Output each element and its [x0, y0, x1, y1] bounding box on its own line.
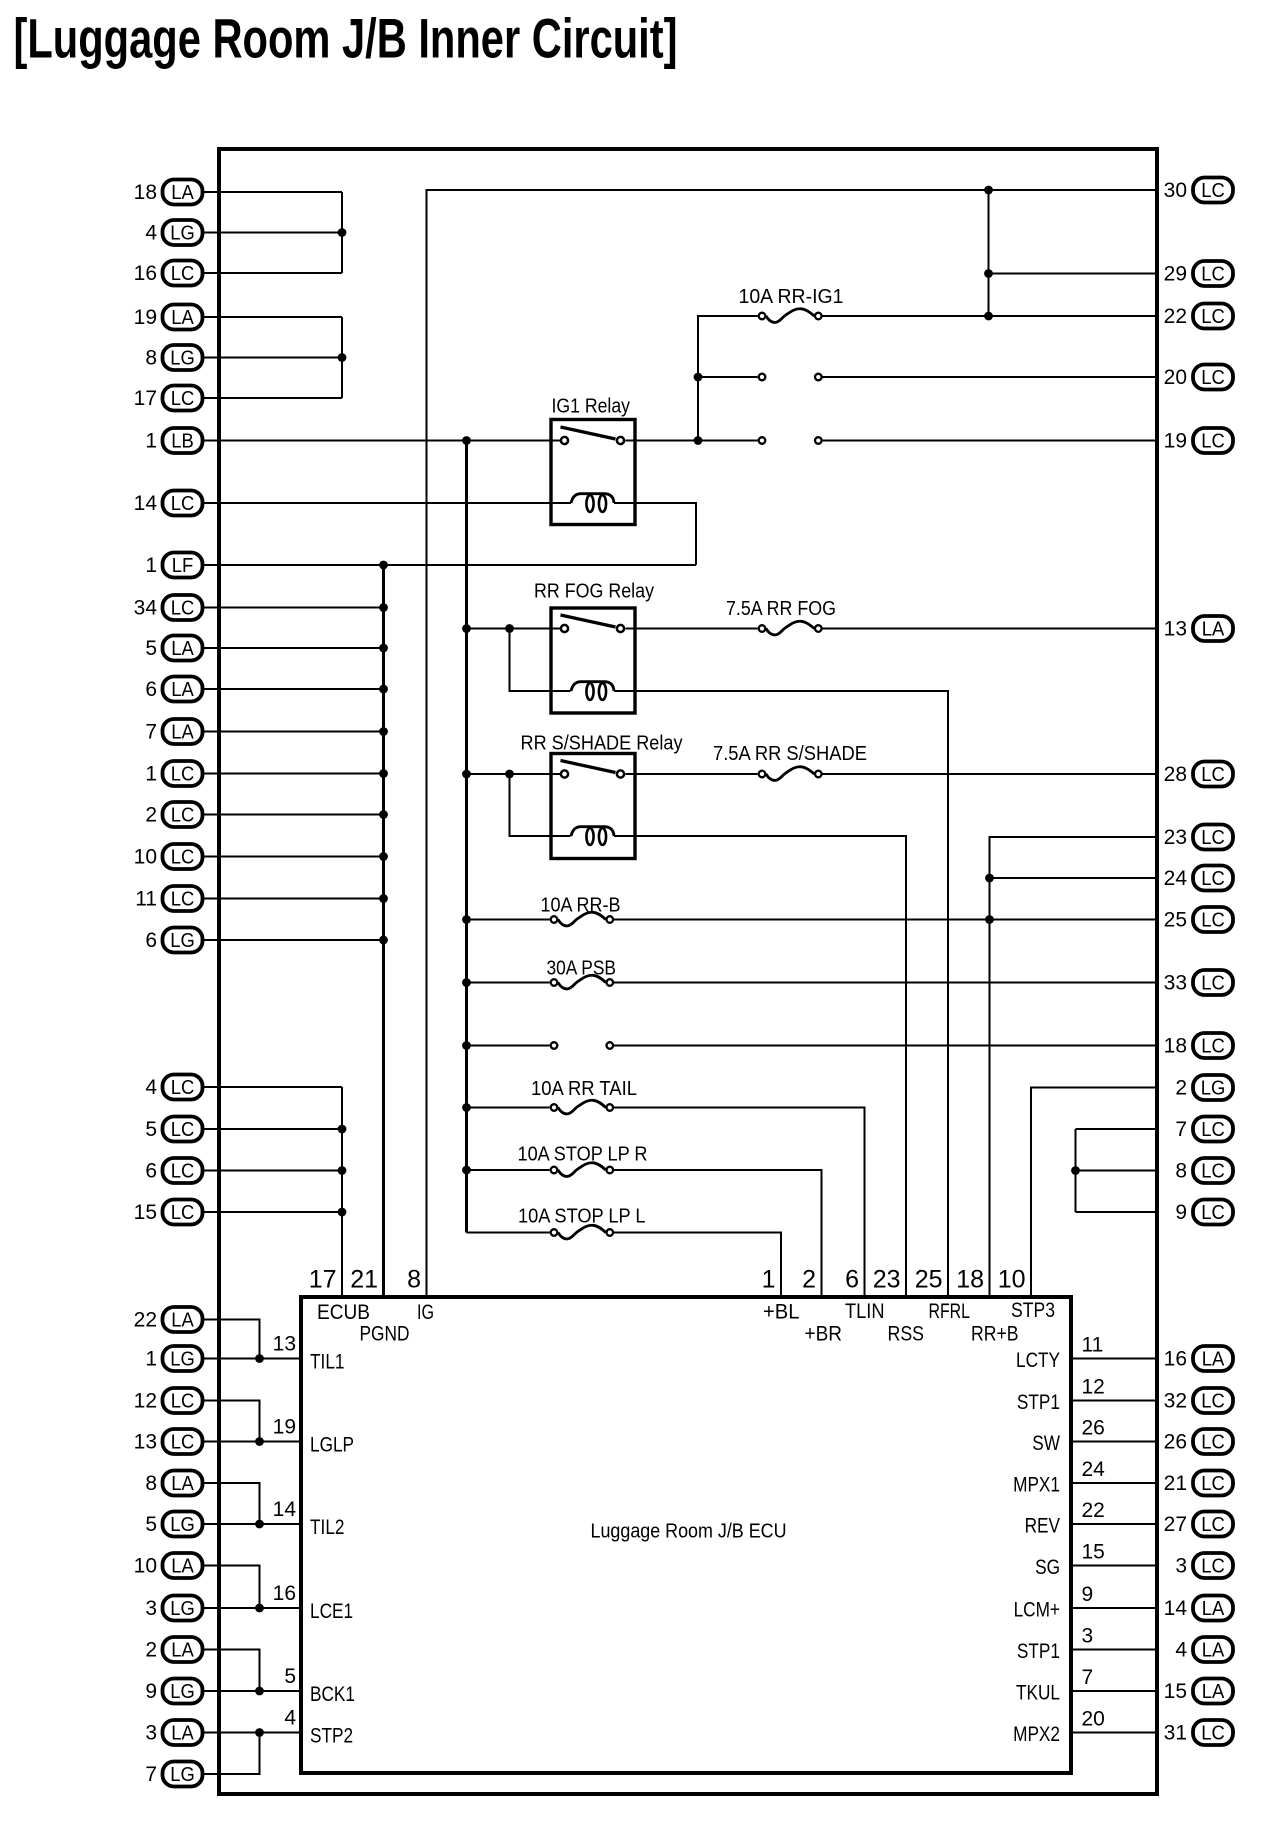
connector pin 18 LA (left) [134, 180, 203, 205]
wire 10 LC to PGND bus [204, 855, 384, 857]
wire ECU pin 7 to 15 LA [1069, 1690, 1157, 1692]
svg-text:11: 11 [1082, 1334, 1104, 1357]
wire ECU pin 20 to 31 LC [1069, 1731, 1157, 1733]
connector pin 25 LC (right) [1164, 907, 1233, 932]
wire 2 LA elbow [204, 1650, 260, 1692]
svg-text:15: 15 [134, 1201, 157, 1224]
svg-text:25: 25 [1164, 909, 1187, 932]
wire to 24 LC [990, 877, 1158, 879]
svg-text:7.5A RR S/SHADE: 7.5A RR S/SHADE [713, 743, 867, 765]
svg-text:16: 16 [1164, 1348, 1187, 1371]
connector pin 28 LC (right) [1164, 762, 1233, 787]
connector pin 22 LC (right) [1164, 304, 1233, 329]
wire 14 LC to IG1 coil [204, 502, 571, 504]
svg-text:LA: LA [1202, 1640, 1225, 1662]
wire RR S/SHADE coil to RSS [614, 836, 906, 1298]
wire tie 7-8-9 LC [1074, 1129, 1076, 1212]
connector pin 3 LC (right) [1175, 1553, 1233, 1578]
fuse 10A RR-B [551, 916, 558, 923]
junction PGND bus y=898.5 [379, 894, 388, 903]
svg-text:30A PSB: 30A PSB [547, 958, 617, 980]
svg-text:LG: LG [1201, 1078, 1226, 1100]
svg-text:1: 1 [145, 554, 157, 577]
svg-text:RR S/SHADE Relay: RR S/SHADE Relay [521, 733, 683, 755]
svg-text:LC: LC [171, 889, 195, 911]
connector pin 5 LA (left) [145, 636, 202, 661]
wire tie 19LA-8LG-17LC [341, 317, 343, 398]
connector pin 2 LC (left) [145, 802, 202, 827]
svg-text:LA: LA [171, 679, 194, 701]
wire IG1 relay output [625, 439, 757, 441]
svg-text:RR+B: RR+B [971, 1323, 1019, 1346]
wire RR-B feed [467, 918, 550, 920]
wire fuse RR-IG1 to 22 LC [823, 315, 1158, 317]
svg-text:LC: LC [171, 1432, 195, 1454]
svg-text:LC: LC [171, 1161, 195, 1183]
relay RR S/SHADE coil [571, 827, 614, 836]
svg-text:4: 4 [145, 1076, 157, 1099]
junction PGND bus y=940 [379, 936, 388, 945]
svg-text:15: 15 [1164, 1680, 1187, 1703]
svg-text:LA: LA [171, 307, 194, 329]
svg-text:10A RR TAIL: 10A RR TAIL [531, 1078, 637, 1100]
junction ECUB bus y=1212 [338, 1208, 347, 1217]
junction IG1 output at x=698 [694, 436, 703, 445]
svg-text:15: 15 [1082, 1541, 1105, 1564]
svg-text:2: 2 [145, 1639, 157, 1662]
connector pin 19 LA (left) [134, 305, 203, 330]
svg-text:LG: LG [170, 1681, 195, 1703]
connector pin 23 LC (right) [1164, 825, 1233, 850]
connector pin 14 LC (left) [134, 491, 203, 516]
connector pin 13 LA (right) [1164, 616, 1233, 641]
wire ECU pin 9 to 14 LA [1069, 1607, 1157, 1609]
wire STOP LP R feed [467, 1169, 550, 1171]
connector pin 29 LC (right) [1164, 261, 1233, 286]
svg-text:PGND: PGND [360, 1323, 410, 1346]
svg-text:6: 6 [145, 929, 157, 952]
connector pin 5 LG (left) [145, 1512, 202, 1537]
svg-text:LA: LA [171, 722, 194, 744]
connector pin 5 LC (left) [145, 1117, 202, 1142]
svg-text:4: 4 [145, 222, 157, 245]
svg-text:10A RR-B: 10A RR-B [541, 895, 621, 917]
svg-text:14: 14 [273, 1498, 297, 1521]
junction feed at 20 LC row [694, 373, 703, 382]
wire 7 LC [1076, 1128, 1158, 1130]
svg-text:17: 17 [309, 1266, 337, 1294]
svg-text:22: 22 [1082, 1499, 1105, 1522]
svg-text:LA: LA [171, 638, 194, 660]
wire to 28 LC [823, 773, 1158, 775]
wire PSB to 33 LC [614, 981, 1157, 983]
svg-text:SG: SG [1035, 1556, 1060, 1579]
connector pin 8 LG (left) [145, 345, 202, 370]
wire 10 LA elbow [204, 1566, 260, 1609]
svg-text:LC: LC [1201, 264, 1225, 286]
svg-text:4: 4 [1175, 1639, 1187, 1662]
svg-text:LC: LC [171, 805, 195, 827]
svg-text:RR FOG Relay: RR FOG Relay [534, 581, 654, 603]
junction +B RR TAIL [462, 1103, 471, 1112]
svg-text:9: 9 [1175, 1201, 1187, 1224]
svg-text:28: 28 [1164, 763, 1187, 786]
svg-text:LC: LC [171, 847, 195, 869]
connector pin 13 LC (left) [134, 1429, 203, 1454]
wire 12 LC elbow [204, 1401, 260, 1442]
svg-text:Luggage Room J/B ECU: Luggage Room J/B ECU [591, 1521, 787, 1543]
svg-text:LC: LC [171, 1202, 195, 1224]
svg-text:4: 4 [284, 1707, 296, 1730]
wire 1 LF / IG1 coil return [204, 564, 696, 566]
svg-text:10A STOP LP R: 10A STOP LP R [518, 1144, 648, 1166]
svg-text:LA: LA [171, 1310, 194, 1332]
junction at 3 LG [255, 1604, 264, 1613]
svg-text:RFRL: RFRL [929, 1300, 971, 1323]
connector pin 31 LC (right) [1164, 1720, 1233, 1745]
wire RR FOG coil feed [510, 629, 571, 692]
connector pin 2 LG (right) [1175, 1075, 1233, 1100]
wire +B to RR S/SHADE relay [467, 773, 561, 775]
svg-text:MPX2: MPX2 [1013, 1723, 1060, 1746]
wire ECU pin 26 to 26 LC [1069, 1440, 1157, 1442]
wire 23 LC to RR+B [990, 837, 1158, 1298]
relay RR FOG box [551, 608, 635, 713]
wire 1 LC to PGND bus [204, 772, 384, 774]
luggage room J/B boundary box [219, 149, 1157, 1794]
relay RR S/SHADE switch contacts [561, 770, 568, 777]
svg-text:STP1: STP1 [1017, 1391, 1060, 1414]
svg-text:2: 2 [1175, 1077, 1187, 1100]
svg-text:31: 31 [1164, 1722, 1187, 1745]
connector pin 10 LA (left) [134, 1553, 203, 1578]
connector pin 17 LC (left) [134, 386, 203, 411]
wire RR S/SHADE coil feed [510, 774, 571, 836]
svg-text:TLIN: TLIN [845, 1300, 885, 1323]
wire 5 LA to PGND bus [204, 647, 384, 649]
wire 4 LG [204, 231, 342, 233]
svg-text:LB: LB [171, 431, 194, 453]
svg-text:7.5A RR FOG: 7.5A RR FOG [726, 598, 836, 620]
wire 7 LG elbow [204, 1733, 260, 1775]
svg-text:1: 1 [145, 1348, 157, 1371]
svg-text:21: 21 [350, 1266, 378, 1294]
junction ECUB bus y=1170.5 [338, 1166, 347, 1175]
svg-text:LC: LC [1201, 367, 1225, 389]
svg-text:21: 21 [1164, 1472, 1187, 1495]
connector pin 14 LA (right) [1164, 1596, 1233, 1621]
connector pin 16 LA (right) [1164, 1346, 1233, 1371]
wire 5 LC [204, 1128, 342, 1130]
wire 8 LA elbow [204, 1483, 260, 1524]
svg-text:10A STOP LP L: 10A STOP LP L [518, 1206, 646, 1228]
svg-text:LA: LA [1202, 1681, 1225, 1703]
wire RR FOG relay output [625, 627, 757, 629]
junction PGND bus y=648 [379, 644, 388, 653]
svg-text:6: 6 [145, 1160, 157, 1183]
wire 6 LC [204, 1169, 342, 1171]
svg-text:LC: LC [171, 388, 195, 410]
junction PGND bus y=856.5 [379, 852, 388, 861]
wire 8 LG [204, 356, 342, 358]
connector pin 22 LA (left) [134, 1307, 203, 1332]
svg-text:LC: LC [1201, 1119, 1225, 1141]
svg-text:LA: LA [171, 182, 194, 204]
svg-text:12: 12 [134, 1390, 157, 1413]
svg-text:16: 16 [273, 1582, 296, 1605]
junction at 1 LG [255, 1354, 264, 1363]
wire PGND bus [382, 565, 385, 1298]
connector pin 30 LC (right) [1164, 178, 1233, 203]
svg-text:LC: LC [1201, 1723, 1225, 1745]
svg-text:19: 19 [134, 306, 157, 329]
terminal pair 20 LC row [759, 374, 766, 381]
svg-text:IG: IG [417, 1301, 434, 1324]
wire 13 LC to ECU [204, 1440, 303, 1442]
svg-text:LCM+: LCM+ [1014, 1599, 1060, 1622]
connector pin 1 LF (left) [145, 553, 202, 578]
relay IG1 switch contacts [561, 437, 568, 444]
wire tie 18LA-4LG-16LC [341, 192, 343, 273]
wire fuse RR-IG1 feed [698, 316, 758, 441]
connector pin 26 LC (right) [1164, 1429, 1233, 1454]
svg-text:LC: LC [1201, 973, 1225, 995]
connector pin 1 LG (left) [145, 1346, 202, 1371]
connector pin 20 LC (right) [1164, 365, 1233, 390]
svg-text:23: 23 [873, 1266, 901, 1294]
wire IG1 coil to 1 LF [614, 503, 696, 565]
connector pin 2 LA (left) [145, 1637, 202, 1662]
svg-text:LC: LC [1201, 764, 1225, 786]
svg-text:2: 2 [802, 1266, 816, 1294]
connector pin 24 LC (right) [1164, 866, 1233, 891]
svg-text:5: 5 [145, 1118, 157, 1141]
svg-text:3: 3 [1082, 1625, 1094, 1648]
connector pin 8 LA (left) [145, 1471, 202, 1496]
svg-text:34: 34 [134, 597, 158, 620]
svg-text:3: 3 [145, 1722, 157, 1745]
svg-text:17: 17 [134, 387, 157, 410]
svg-text:20: 20 [1082, 1708, 1105, 1731]
svg-text:LG: LG [170, 1349, 195, 1371]
svg-text:5: 5 [284, 1665, 296, 1688]
svg-text:14: 14 [1164, 1597, 1188, 1620]
svg-text:9: 9 [1082, 1583, 1094, 1606]
svg-text:10A RR-IG1: 10A RR-IG1 [739, 286, 844, 308]
junction IG line at x=988 [984, 186, 993, 195]
svg-text:LGLP: LGLP [310, 1434, 354, 1457]
svg-text:LG: LG [170, 1598, 195, 1620]
svg-text:LC: LC [171, 1391, 195, 1413]
wire 15 LC [204, 1211, 342, 1213]
svg-text:LC: LC [1201, 910, 1225, 932]
svg-text:LC: LC [1201, 827, 1225, 849]
svg-text:LC: LC [1201, 868, 1225, 890]
connector pin 3 LG (left) [145, 1596, 202, 1621]
svg-text:LG: LG [170, 348, 195, 370]
connector pin 33 LC (right) [1164, 970, 1233, 995]
wire 4 LC [204, 1086, 342, 1088]
junction +B PSB [462, 978, 471, 987]
wire 2 LC to PGND bus [204, 813, 384, 815]
svg-text:14: 14 [134, 492, 158, 515]
svg-text:22: 22 [1164, 305, 1187, 328]
junction at 4 LG [338, 228, 347, 237]
wire 3 LA to ECU [204, 1731, 303, 1733]
svg-text:18: 18 [956, 1266, 984, 1294]
wire 6 LG to PGND bus [204, 939, 384, 941]
wire STOP LP L feed [467, 1231, 550, 1233]
connector pin 1 LB (left) [145, 428, 202, 453]
connector pin 12 LC (left) [134, 1388, 203, 1413]
svg-text:LG: LG [170, 1514, 195, 1536]
svg-text:LC: LC [1201, 1036, 1225, 1058]
ECU Luggage Room J/B ECU box [301, 1297, 1071, 1773]
svg-text:LCTY: LCTY [1016, 1349, 1060, 1372]
junction at 13 LC [255, 1437, 264, 1446]
wire 16 LC [204, 272, 342, 274]
wire ECU pin 12 to 32 LC [1069, 1399, 1157, 1401]
svg-text:MPX1: MPX1 [1013, 1474, 1060, 1497]
junction PGND bus y=607.5 [379, 603, 388, 612]
svg-text:10: 10 [134, 846, 157, 869]
junction RR S/SHADE coil feed [505, 770, 514, 779]
fuse 10A RR TAIL [551, 1104, 558, 1111]
wire STOP LP R to +BR [614, 1170, 822, 1298]
wire to 20 LC [823, 376, 1158, 378]
svg-text:7: 7 [145, 721, 157, 744]
junction 8 LC [1071, 1166, 1080, 1175]
relay RR FOG switch contacts [561, 625, 568, 632]
fuse 7.5A RR S/SHADE [759, 771, 766, 778]
svg-text:STP3: STP3 [1011, 1299, 1055, 1322]
wire RR TAIL to TLIN [614, 1108, 865, 1299]
junction at 3 LA [255, 1728, 264, 1737]
svg-text:LC: LC [1201, 1473, 1225, 1495]
wire 5 LG to ECU [204, 1523, 303, 1525]
svg-text:19: 19 [1164, 430, 1187, 453]
wire to 19 LC [823, 439, 1158, 441]
junction RR FOG coil feed [505, 624, 514, 633]
svg-text:1: 1 [762, 1266, 776, 1294]
connector pin 7 LG (left) [145, 1762, 202, 1787]
junction +B spare [462, 1041, 471, 1050]
svg-text:16: 16 [134, 262, 157, 285]
svg-text:LC: LC [171, 1119, 195, 1141]
svg-text:6: 6 [845, 1266, 859, 1294]
svg-text:22: 22 [134, 1309, 157, 1332]
wire PSB feed [467, 981, 550, 983]
svg-text:BCK1: BCK1 [310, 1683, 355, 1706]
fuse 7.5A RR FOG [759, 625, 766, 632]
svg-text:24: 24 [1164, 867, 1188, 890]
wire RR S/SHADE relay output [625, 773, 757, 775]
wire 19 LA [204, 316, 342, 318]
svg-text:13: 13 [273, 1333, 296, 1356]
connector pin 3 LA (left) [145, 1720, 202, 1745]
svg-text:7: 7 [145, 1763, 157, 1786]
wire RR TAIL feed [467, 1106, 550, 1108]
junction +B STOP LP R [462, 1166, 471, 1175]
svg-text:8: 8 [145, 347, 157, 370]
junction 29 LC [984, 269, 993, 278]
svg-text:ECUB: ECUB [317, 1301, 370, 1324]
svg-text:LA: LA [171, 1640, 194, 1662]
wire 7 LA to PGND bus [204, 730, 384, 732]
wire 1 LG to ECU [204, 1357, 303, 1359]
connector pin 6 LA (left) [145, 677, 202, 702]
svg-text:LCE1: LCE1 [310, 1600, 353, 1623]
junction PGND bus y=814.5 [379, 810, 388, 819]
svg-text:33: 33 [1164, 972, 1187, 995]
wire ECU pin 24 to 21 LC [1069, 1482, 1157, 1484]
svg-text:LA: LA [1202, 619, 1225, 641]
svg-text:2: 2 [145, 804, 157, 827]
svg-text:LC: LC [171, 598, 195, 620]
svg-text:13: 13 [1164, 618, 1187, 641]
junction +B RR FOG [462, 624, 471, 633]
relay RR S/SHADE box [551, 754, 635, 859]
wire +B to RR FOG relay [467, 627, 561, 629]
wire spare terminal feed [467, 1044, 550, 1046]
junction PGND bus y=565 [379, 561, 388, 570]
svg-text:LG: LG [170, 223, 195, 245]
wire IG bus to 30 LC [427, 190, 1158, 1298]
svg-text:10: 10 [998, 1266, 1026, 1294]
svg-text:LC: LC [1201, 1161, 1225, 1183]
wire 11 LC to PGND bus [204, 897, 384, 899]
svg-text:LG: LG [170, 930, 195, 952]
junction ECUB bus y=1129 [338, 1125, 347, 1134]
fuse 10A RR-IG1 [759, 313, 766, 320]
connector pin 16 LC (left) [134, 261, 203, 286]
svg-text:5: 5 [145, 1513, 157, 1536]
terminal pair 19 LC row [759, 437, 766, 444]
svg-text:STP2: STP2 [310, 1725, 353, 1748]
svg-text:LC: LC [1201, 431, 1225, 453]
junction +B at 1 LB [462, 436, 471, 445]
junction 24 LC [985, 874, 994, 883]
svg-text:30: 30 [1164, 179, 1187, 202]
wire ECU pin 15 to 3 LC [1069, 1564, 1157, 1566]
svg-text:10: 10 [134, 1555, 157, 1578]
svg-text:18: 18 [134, 181, 157, 204]
svg-text:11: 11 [135, 888, 157, 911]
svg-text:9: 9 [145, 1680, 157, 1703]
wire to 18 LC [614, 1044, 1157, 1046]
connector pin 7 LC (right) [1175, 1117, 1233, 1142]
svg-text:13: 13 [134, 1431, 157, 1454]
svg-text:LC: LC [1201, 1202, 1225, 1224]
connector pin 8 LC (right) [1175, 1158, 1233, 1183]
svg-text:LA: LA [1202, 1349, 1225, 1371]
svg-text:20: 20 [1164, 366, 1187, 389]
svg-text:27: 27 [1164, 1513, 1187, 1536]
relay IG1 box [551, 420, 635, 525]
svg-text:23: 23 [1164, 826, 1187, 849]
svg-text:7: 7 [1082, 1666, 1094, 1689]
svg-text:1: 1 [145, 763, 157, 786]
connector pin 6 LG (left) [145, 928, 202, 953]
connector pin 21 LC (right) [1164, 1471, 1233, 1496]
junction PGND bus y=773.5 [379, 769, 388, 778]
wire ECUB bus [341, 1087, 343, 1298]
svg-text:24: 24 [1082, 1458, 1106, 1481]
connector pin 15 LC (left) [134, 1200, 203, 1225]
svg-text:LG: LG [170, 1764, 195, 1786]
junction at 8 LG [338, 353, 347, 362]
connector pin 7 LA (left) [145, 719, 202, 744]
